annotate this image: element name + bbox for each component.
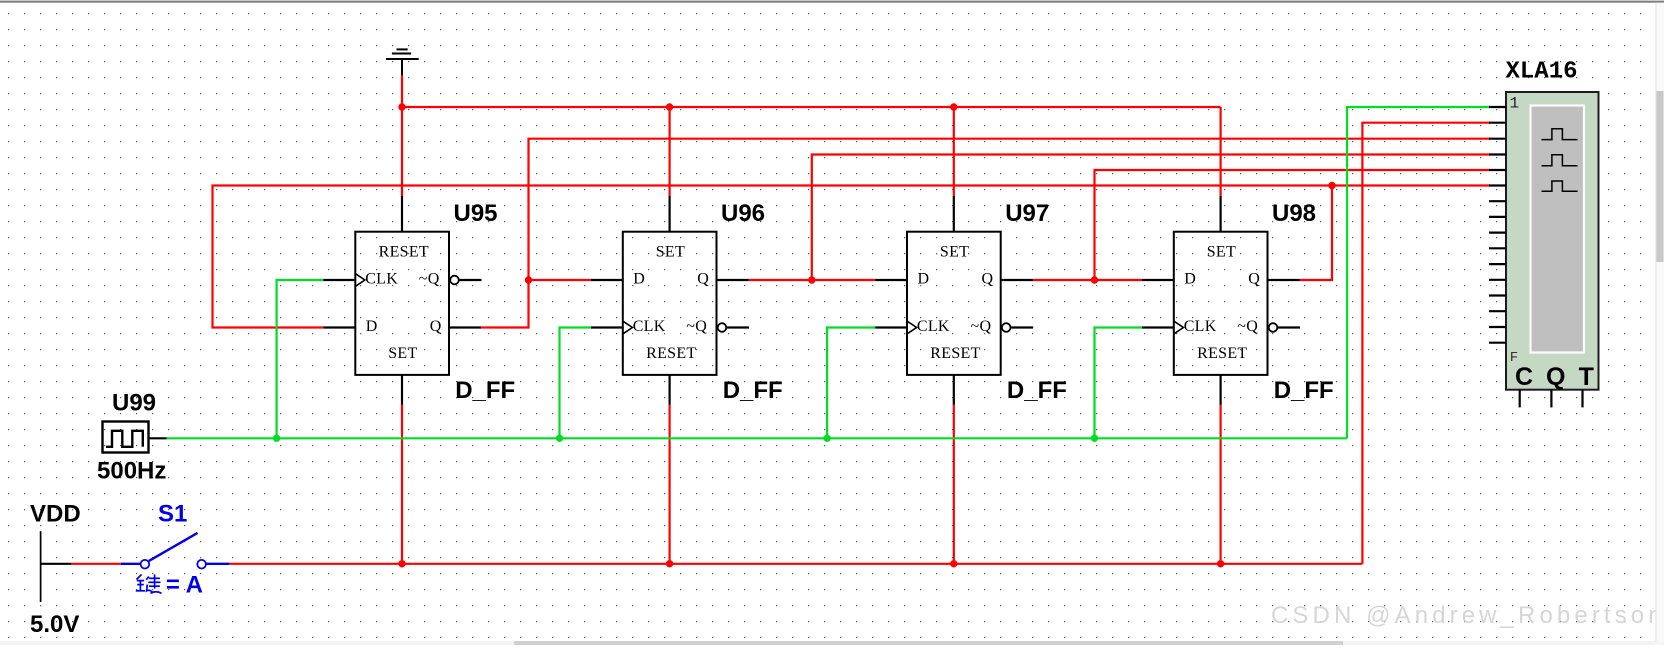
svg-text:SET: SET — [388, 345, 417, 362]
svg-text:RESET: RESET — [1197, 345, 1247, 362]
ground — [386, 49, 419, 76]
wire clock to U95 CLK — [277, 280, 324, 438]
svg-text:D: D — [633, 270, 645, 287]
svg-text:~Q: ~Q — [971, 318, 992, 335]
flip-flop U95 — [324, 196, 482, 405]
svg-text:RESET: RESET — [930, 345, 980, 362]
wire L1 drop to U97 SET pin — [953, 107, 955, 197]
svg-text:T: T — [1579, 363, 1594, 391]
svg-text:U97: U97 — [1005, 200, 1049, 227]
svg-text:D_FF: D_FF — [1007, 377, 1067, 404]
wire L1 drop to U95 RESET pin — [401, 107, 403, 197]
label key = A — [136, 575, 162, 594]
wire L4 U96 Q to XLA16 pin4 — [812, 155, 1490, 281]
junction L1/U97 — [950, 103, 957, 110]
bottom scrollbar — [0, 641, 1664, 645]
wire clock to U97 CLK — [827, 328, 875, 439]
svg-text:VDD: VDD — [30, 501, 81, 528]
pulse icon 1 — [1542, 129, 1578, 140]
svg-text:SET: SET — [940, 243, 969, 260]
wire U96 Q to U97 D — [749, 279, 876, 281]
svg-text:CLK: CLK — [1184, 318, 1217, 335]
pulse icon 3 — [1542, 181, 1578, 191]
svg-text:5.0V: 5.0V — [30, 611, 79, 638]
flip-flop U98 — [1142, 196, 1300, 405]
wire clock to U96 CLK — [560, 328, 592, 439]
pulse icon 2 — [1542, 155, 1578, 166]
switch S1 — [121, 533, 230, 569]
wire U96 RESET pin to rail — [668, 404, 670, 564]
junction rail/U97 — [950, 560, 957, 567]
junction rail/U95 — [398, 560, 405, 567]
wire U95 Q junction to U96 D — [529, 279, 592, 281]
svg-text:C: C — [1515, 363, 1533, 391]
junction clock/U95 — [273, 435, 280, 442]
wire clock to U98 CLK — [1095, 328, 1143, 439]
junction clock/U96 — [556, 435, 563, 442]
wire U97 Q to U98 D — [1032, 279, 1142, 281]
wire VDD to switch — [71, 563, 120, 565]
junction L1/ground — [398, 103, 405, 110]
logic analyzer XLA16 — [1489, 59, 1599, 408]
junction U96 Q node — [808, 276, 815, 283]
flip-flop U97 — [875, 196, 1033, 405]
svg-text:U98: U98 — [1272, 200, 1316, 227]
svg-text:D: D — [918, 270, 930, 287]
right scrollbar — [1656, 3, 1664, 645]
svg-text:D_FF: D_FF — [1274, 377, 1334, 404]
junction L1/U96 — [666, 103, 673, 110]
svg-text:S1: S1 — [158, 501, 187, 528]
junction U98 Q / L6 — [1328, 182, 1335, 189]
svg-text:500Hz: 500Hz — [97, 457, 166, 484]
svg-text:1: 1 — [1510, 94, 1520, 112]
clock source U99 — [103, 422, 167, 453]
wire bus L1 (RESET/SET top rail) — [402, 106, 1221, 108]
svg-text:U99: U99 — [112, 390, 156, 417]
svg-text:RESET: RESET — [379, 243, 429, 260]
svg-text:Q: Q — [982, 270, 994, 287]
wire clock to XLA16 pin1 — [1347, 107, 1490, 438]
svg-text:U95: U95 — [454, 200, 498, 227]
svg-text:CLK: CLK — [365, 270, 398, 287]
svg-text:~Q: ~Q — [1237, 318, 1258, 335]
wire clock rail green — [166, 437, 1347, 439]
svg-text:D_FF: D_FF — [455, 377, 515, 404]
svg-text:SET: SET — [656, 243, 685, 260]
power VDD — [41, 531, 72, 602]
wire ground to bus L1 — [401, 75, 403, 107]
svg-text:D_FF: D_FF — [723, 377, 783, 404]
svg-text:~Q: ~Q — [686, 318, 707, 335]
svg-text:RESET: RESET — [646, 345, 696, 362]
junction rail/U96 — [666, 560, 673, 567]
wire L6 feedback to U95 D and XLA16 pin6 — [213, 186, 1491, 328]
svg-text:XLA16: XLA16 — [1506, 59, 1578, 86]
svg-text:CLK: CLK — [917, 318, 950, 335]
svg-text:CSDN @Andrew_Robertson: CSDN @Andrew_Robertson — [1271, 602, 1664, 629]
svg-text:SET: SET — [1207, 243, 1236, 260]
junction U97 Q node — [1091, 276, 1098, 283]
junction clock/U98 — [1091, 435, 1098, 442]
svg-text:CLK: CLK — [633, 318, 666, 335]
bottom pins C Q T — [1520, 390, 1583, 408]
wire L1 drop to U98 SET pin — [1219, 107, 1221, 197]
svg-text:Q: Q — [697, 270, 709, 287]
wire bottom supply rail — [229, 563, 1362, 565]
svg-text:U96: U96 — [721, 200, 765, 227]
junction U95 Q node — [525, 276, 532, 283]
wire L2 bottom rail to XLA16 pin2 — [1362, 123, 1490, 564]
top window border — [0, 0, 1664, 1]
svg-text:D: D — [366, 318, 378, 335]
wire U98 RESET pin to rail — [1219, 404, 1221, 564]
svg-text:~Q: ~Q — [419, 270, 440, 287]
pins 1-16 — [1489, 107, 1506, 343]
wire U97 RESET pin to rail — [953, 404, 955, 564]
junction rail/U98 — [1217, 560, 1224, 567]
wire L5 U97 Q to XLA16 pin5 — [1095, 170, 1491, 280]
svg-text:Q: Q — [1546, 363, 1565, 391]
svg-text:Q: Q — [430, 318, 442, 335]
svg-text:Q: Q — [1248, 270, 1260, 287]
wire U95 SET pin to rail — [401, 404, 403, 564]
wire L1 drop to U96 SET pin — [668, 107, 670, 197]
wire U98 Q up to L6 — [1299, 186, 1332, 281]
wire L3 U95 Q to XLA16 pin3 — [481, 139, 1490, 328]
junction clock/U97 — [823, 435, 830, 442]
svg-text:D: D — [1184, 270, 1196, 287]
flip-flop U96 — [591, 196, 749, 405]
svg-text:= A: = A — [166, 571, 203, 598]
